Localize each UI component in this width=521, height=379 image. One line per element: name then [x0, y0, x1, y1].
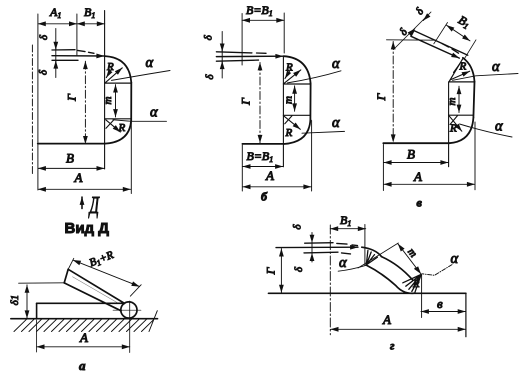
m dimension: [398, 244, 421, 274]
flange line L2 with arrow: [216, 55, 283, 57]
dimension V: [384, 162, 449, 164]
dimension A: [243, 186, 312, 188]
svg-text:Г: Г: [239, 97, 253, 106]
svg-text:В1: В1: [456, 13, 473, 32]
view arrow D: [81, 197, 83, 209]
extension right top dim: [283, 13, 285, 53]
svg-text:R: R: [285, 127, 293, 139]
bar end edge: [64, 269, 68, 283]
svg-text:α: α: [339, 255, 347, 271]
profile: top outer bend arc: [105, 56, 131, 83]
flange line L3: [52, 59, 78, 61]
G dimension: [392, 42, 394, 143]
bottom flange: [38, 143, 105, 145]
svg-text:δ: δ: [37, 69, 49, 75]
B1 extension right: [465, 40, 476, 58]
svg-text:б: б: [261, 190, 268, 204]
bottom flange: [383, 142, 449, 144]
svg-text:В: В: [407, 147, 415, 162]
svg-text:А: А: [265, 168, 274, 183]
svg-text:А: А: [382, 312, 391, 327]
dimension B=B1 top: [242, 19, 284, 21]
top sector radial arrow: [451, 71, 470, 80]
svg-text:Г: Г: [263, 266, 277, 275]
flange L3 dashes: [342, 253, 351, 254]
svg-text:в: в: [417, 196, 423, 210]
bottom sector cross: [285, 116, 292, 124]
B1 extension left: [434, 23, 448, 44]
dimension A: [384, 183, 475, 185]
sheet top edge: [37, 302, 124, 304]
bottom sector radial arrow: [284, 116, 300, 129]
inclined bar upper edge: [68, 269, 124, 303]
bottom sector cross: [450, 116, 458, 125]
flange L1: [305, 242, 333, 245]
chord bottom: [283, 114, 310, 116]
extension right outer: [130, 122, 132, 194]
left extension: [382, 145, 384, 191]
right edge down: [465, 293, 467, 336]
alpha leader bottom: [113, 120, 167, 122]
outer right edge: [130, 83, 132, 121]
svg-text:R: R: [449, 123, 457, 135]
flange line L2 with arrow: [52, 55, 104, 57]
inclined bar lower edge: [64, 283, 121, 311]
flange L1: [414, 31, 468, 56]
dimension B1: [77, 23, 105, 25]
B1 dimension line: [447, 25, 471, 41]
svg-text:В1: В1: [340, 213, 351, 228]
top outer arc: [463, 58, 475, 82]
axis dash-dot left: [31, 45, 33, 175]
flange dashed blank line: [78, 50, 95, 53]
top sector chord: [449, 81, 475, 83]
G dimension: [259, 63, 261, 143]
svg-text:А1: А1: [49, 5, 61, 20]
outer edge: [473, 82, 474, 118]
svg-text:А: А: [79, 330, 88, 345]
G dimension line: [84, 61, 86, 144]
left extension for A: [36, 320, 38, 352]
flange line L1: [216, 52, 252, 53]
bottom outer arc: [449, 118, 473, 144]
alpha leader bottom: [460, 124, 513, 137]
bottom outer bend arc: [105, 120, 131, 143]
svg-text:в: в: [437, 296, 443, 311]
long left extension dash-dot: [329, 225, 331, 335]
svg-text:R: R: [118, 122, 126, 134]
svg-text:δ: δ: [38, 34, 50, 40]
right extension A: [474, 122, 476, 190]
top sector R pointer: [106, 69, 112, 78]
svg-text:m: m: [405, 246, 419, 260]
delta arrows on diagonal: [423, 16, 427, 20]
G dimension: [280, 249, 282, 293]
svg-text:δ: δ: [202, 34, 214, 40]
flange L3: [304, 251, 338, 254]
delta arrows: [311, 237, 313, 243]
base line: [269, 292, 466, 294]
svg-text:В1: В1: [84, 5, 95, 20]
extension line middle A1/B1: [76, 14, 78, 55]
delta1 extension line: [19, 282, 65, 284]
m dimension: [458, 86, 460, 112]
B1+R extension left: [67, 258, 74, 271]
bottom outer arc: [284, 120, 311, 145]
inner edge vertical: [282, 56, 284, 167]
top sector radius line: [449, 59, 463, 82]
V extension left: [421, 275, 423, 318]
svg-text:α: α: [332, 115, 340, 131]
alpha leader top: [112, 71, 171, 81]
svg-text:г: г: [390, 339, 395, 353]
top sector cross: [454, 64, 461, 73]
svg-text:А: А: [413, 169, 422, 184]
svg-text:δ: δ: [204, 74, 216, 80]
delta dim line: [221, 32, 223, 79]
profile top outer arc: [284, 56, 311, 83]
svg-text:А: А: [74, 170, 83, 185]
inner edge / extension vertical: [104, 11, 106, 170]
svg-text:α: α: [492, 59, 500, 75]
top bend outer arc: [362, 247, 382, 256]
svg-text:m: m: [282, 96, 294, 104]
svg-text:α: α: [146, 55, 154, 71]
flange line L1: [52, 49, 75, 51]
svg-text:R: R: [285, 62, 293, 74]
svg-text:α: α: [495, 119, 503, 135]
bottom sector radial arrow: [106, 120, 121, 132]
flange line L3: [216, 60, 258, 61]
svg-text:В1+R: В1+R: [88, 249, 116, 270]
roller circle: [121, 302, 137, 318]
dimension V: [38, 167, 104, 169]
B1+R dimension line: [73, 260, 140, 286]
svg-text:R: R: [412, 279, 420, 290]
extension left top dim: [241, 14, 243, 66]
svg-text:В=В1: В=В1: [246, 3, 273, 18]
alpha1 leader: [338, 265, 366, 271]
svg-text:а: а: [79, 358, 86, 373]
svg-text:Д: Д: [88, 193, 100, 219]
ink dot on m line: [414, 268, 416, 270]
right extension B1: [364, 225, 366, 266]
web upper edge: [382, 257, 413, 280]
top sector radial arrow: [284, 70, 301, 83]
svg-text:α: α: [150, 105, 158, 121]
svg-text:Г: Г: [374, 92, 388, 101]
B1+R extension right: [130, 285, 141, 297]
dimension A: [331, 328, 466, 330]
left extension bottom: [241, 145, 243, 191]
bottom flange: [242, 143, 283, 145]
dimension V: [421, 311, 466, 313]
dimension V bottom: [243, 166, 283, 168]
right extension A: [311, 121, 313, 192]
flange dashes L1: [337, 243, 358, 245]
bottom sector cross: [106, 120, 114, 129]
bar fold line faint: [73, 277, 118, 303]
outer edge: [309, 83, 311, 119]
flange L2 with arrow: [411, 36, 459, 58]
svg-text:R: R: [106, 61, 114, 73]
svg-text:δ: δ: [414, 5, 427, 17]
svg-text:Г: Г: [64, 93, 78, 102]
alpha2 leader dash-dot: [422, 265, 452, 276]
dimension A1: [38, 23, 77, 25]
G top extension horizontal: [387, 39, 437, 41]
bottom bend fan strokes: [403, 274, 421, 292]
flange L2 with arrow (G extension): [276, 246, 358, 248]
top sector R pointer: [285, 70, 291, 79]
svg-text:δ1: δ1: [9, 295, 21, 306]
alpha leader top: [453, 74, 519, 81]
B1 dimension: [330, 228, 365, 230]
svg-text:R: R: [459, 61, 467, 73]
roller centerline vertical / A extension: [129, 301, 131, 353]
svg-text:m: m: [102, 96, 114, 104]
top sector radial arrow: [106, 68, 123, 83]
svg-text:В=В1: В=В1: [247, 149, 274, 164]
svg-text:δ: δ: [292, 224, 304, 230]
m dimension: [115, 85, 117, 117]
m dimension: [294, 86, 296, 112]
roller centerline horizontal: [113, 309, 141, 311]
inner edge vertical: [448, 82, 450, 167]
alpha leader bottom: [302, 131, 345, 133]
delta dim line: [311, 233, 313, 263]
svg-text:α: α: [332, 56, 340, 72]
web lower edge and bottom outer arc: [367, 265, 415, 293]
dimension A: [37, 346, 130, 348]
extension line left: [37, 14, 39, 190]
bottom sector radial arrow: [449, 116, 461, 131]
ground line: [11, 318, 158, 320]
svg-text:δ: δ: [397, 26, 410, 38]
tip edge extension diagonal: [394, 12, 432, 50]
delta arrows: [221, 45, 223, 51]
svg-text:m: m: [446, 97, 458, 105]
chord top: [283, 83, 310, 85]
alpha leader top: [288, 71, 342, 83]
flange tip edge: [411, 31, 414, 37]
sheet left edge: [36, 303, 38, 318]
top bend fan strokes: [366, 250, 377, 265]
flange dashed blank: [442, 44, 459, 54]
svg-text:В: В: [66, 151, 74, 166]
bottom chord: [449, 114, 474, 116]
dimension A: [38, 188, 131, 190]
svg-text:Вид Д: Вид Д: [65, 220, 110, 237]
chord top sector: [105, 82, 131, 84]
chord bottom sector: [105, 118, 131, 120]
svg-text:δ: δ: [293, 266, 305, 272]
delta arrows: [55, 43, 57, 50]
delta1 dimension: [26, 285, 28, 318]
delta dim line vertical: [55, 29, 57, 78]
ground hatching: [14, 311, 157, 332]
m extension line long: [358, 243, 398, 268]
flange dashed blank: [257, 52, 267, 54]
